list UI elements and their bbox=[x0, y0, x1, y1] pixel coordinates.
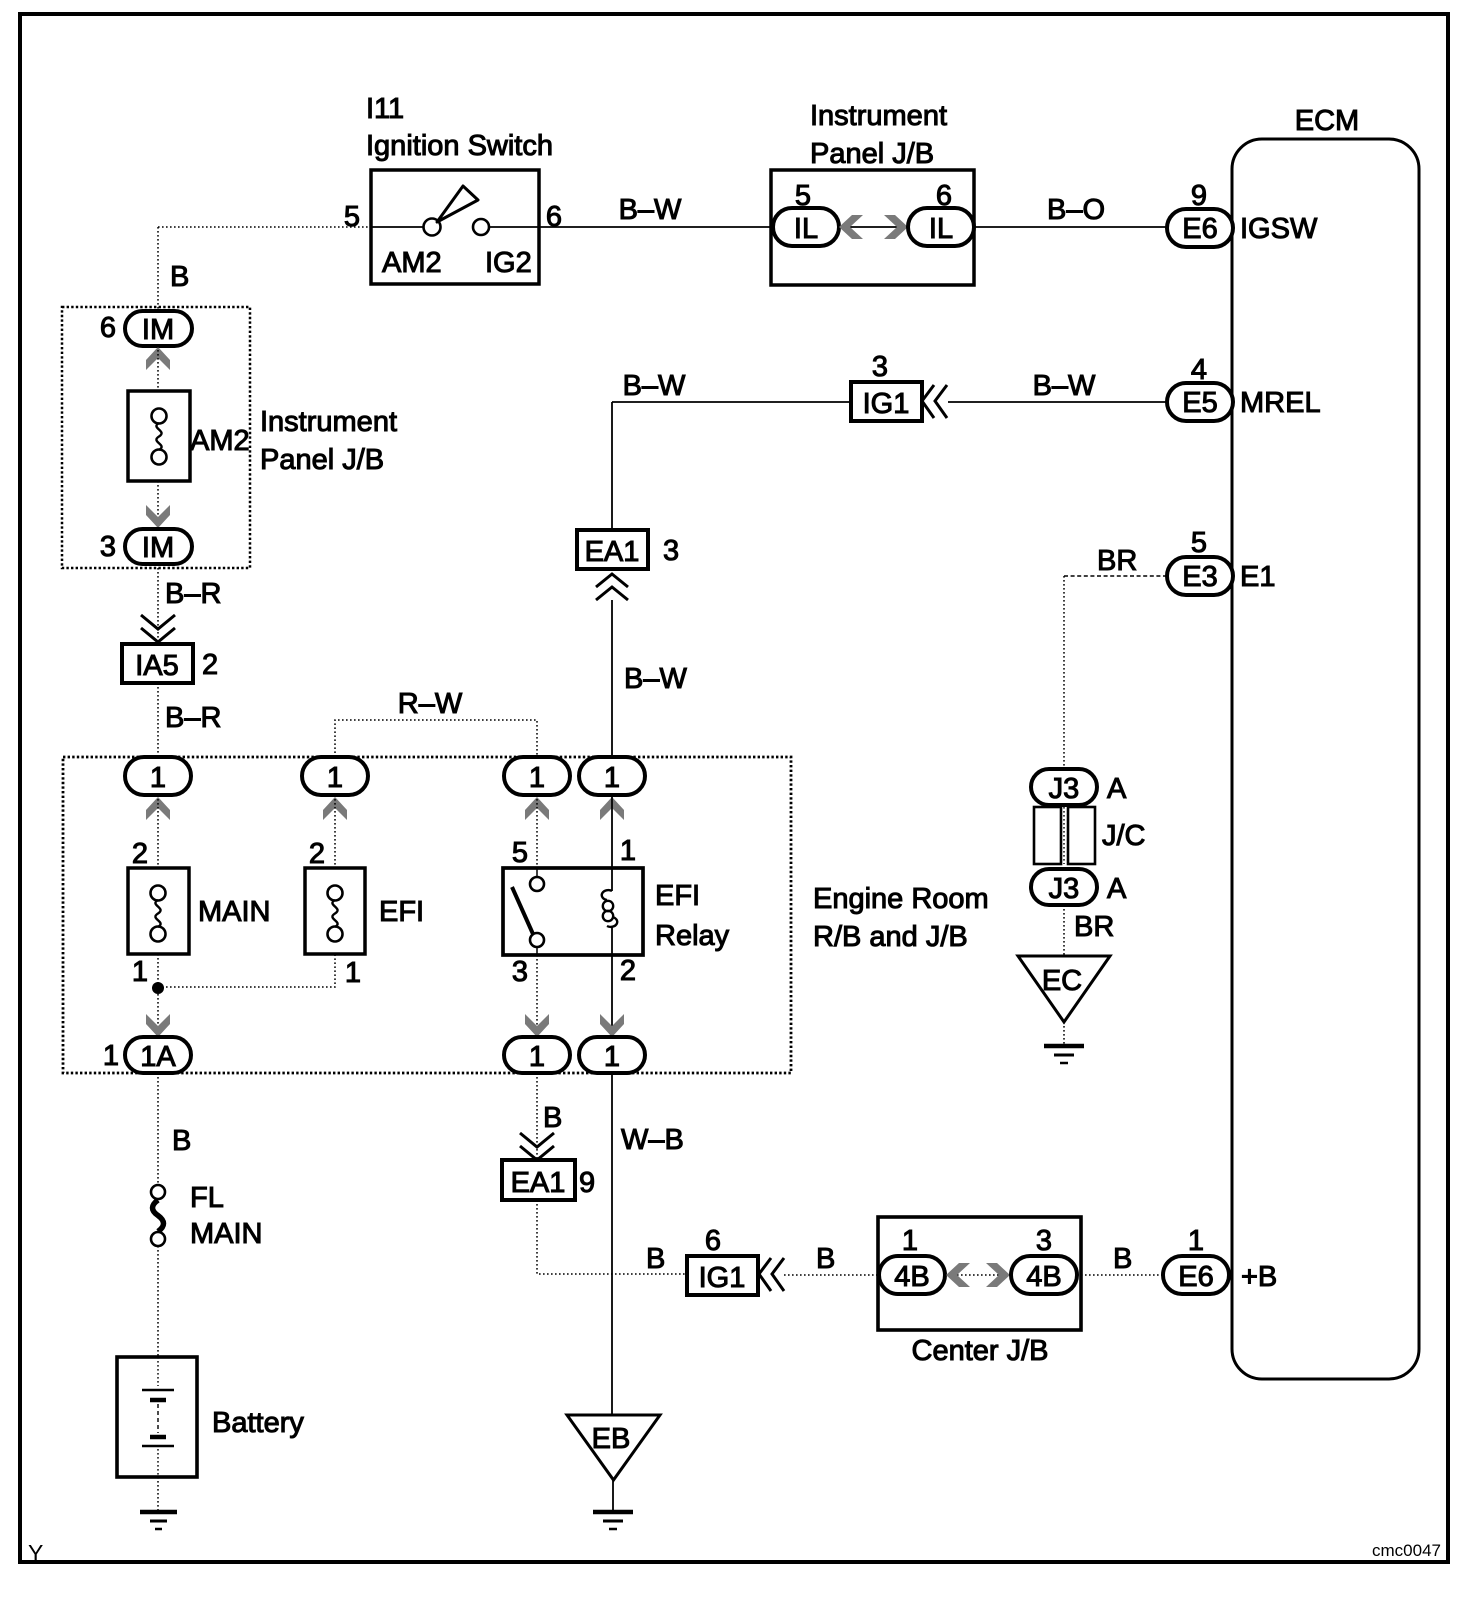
wire (EC to ground) bbox=[1063, 1022, 1065, 1046]
wire (battery to ground) bbox=[157, 1477, 159, 1511]
wire B (1A to fusible link) bbox=[157, 1073, 159, 1185]
svg-text:Panel J/B: Panel J/B bbox=[810, 138, 934, 170]
wire B (EA1 to IG1 bottom) bbox=[537, 1200, 687, 1274]
ground (EC) bbox=[1044, 1046, 1084, 1063]
svg-text:B–O: B–O bbox=[1047, 194, 1105, 226]
wire W-B (relay pin2 branch down to EB) bbox=[611, 1073, 613, 1415]
connector IM (pin3) bbox=[125, 529, 192, 564]
connector chevrons (above EA1 bottom, pointing down) bbox=[520, 1133, 554, 1160]
connector IG1 (top) bbox=[851, 382, 922, 421]
wire B-W vertical (EA1 down to engine room) bbox=[611, 600, 613, 757]
ground triangle EB bbox=[567, 1415, 660, 1480]
ground (EB) bbox=[593, 1512, 633, 1529]
connector 4B (pin1) bbox=[879, 1256, 945, 1294]
wire (fusible link to battery) bbox=[157, 1246, 159, 1357]
wire node B (switch pin5 to left drop) bbox=[158, 226, 371, 228]
connector IL (pin5) bbox=[773, 208, 839, 246]
connector IL (pin6) bbox=[908, 208, 974, 246]
svg-text:R/B and J/B: R/B and J/B bbox=[813, 921, 968, 953]
wire BR (J3 to EC) bbox=[1063, 905, 1065, 956]
svg-text:B: B bbox=[543, 1102, 562, 1134]
relay coil bbox=[602, 868, 617, 955]
arrow (down, above bottom connector relay pin2) bbox=[600, 1014, 624, 1037]
svg-text:Battery: Battery bbox=[212, 1407, 304, 1439]
svg-text:cmc0047: cmc0047 bbox=[1372, 1541, 1441, 1560]
svg-text:1: 1 bbox=[902, 1225, 918, 1257]
connector EA1 pin9 bbox=[502, 1160, 575, 1200]
svg-text:1: 1 bbox=[327, 762, 343, 794]
wire between 4B connectors bbox=[945, 1274, 1011, 1276]
svg-text:1: 1 bbox=[345, 957, 361, 989]
svg-text:EC: EC bbox=[1042, 965, 1082, 997]
svg-text:3: 3 bbox=[872, 351, 888, 383]
engine room label bbox=[813, 883, 989, 953]
connector J3 (A, bottom) bbox=[1031, 869, 1097, 905]
connector chevrons (IG1 bottom, pointing left) bbox=[759, 1258, 784, 1291]
svg-text:1: 1 bbox=[620, 835, 636, 867]
ignition switch I11 label bbox=[366, 93, 553, 162]
svg-text:IG1: IG1 bbox=[863, 388, 910, 420]
junction connector J/C box bbox=[1034, 807, 1095, 864]
wire BR vertical (down to J3) bbox=[1063, 576, 1065, 769]
connector E5 (MREL) bbox=[1167, 383, 1233, 421]
svg-text:IM: IM bbox=[142, 314, 174, 346]
arrow (up, below connector 1 relay pin1) bbox=[600, 797, 624, 820]
ignition switch I11 box bbox=[371, 170, 539, 284]
arrow (down, toward IM pin3) bbox=[146, 505, 170, 528]
wire (inside switch, IG2 side) bbox=[489, 226, 539, 228]
wire (EB to ground) bbox=[612, 1480, 614, 1511]
svg-text:EA1: EA1 bbox=[511, 1167, 566, 1199]
wire B-W vertical (IG1 branch down to EA1) bbox=[611, 402, 613, 530]
wire (MAIN fuse to junction and 1A) bbox=[157, 954, 159, 1039]
svg-text:2: 2 bbox=[132, 838, 148, 870]
instrument panel J/B (top) label bbox=[810, 100, 947, 170]
svg-text:B–W: B–W bbox=[619, 194, 682, 226]
svg-text:MAIN: MAIN bbox=[198, 896, 271, 928]
svg-text:FL: FL bbox=[190, 1182, 224, 1214]
ECM box bbox=[1232, 139, 1419, 1379]
svg-text:EFI: EFI bbox=[655, 880, 700, 912]
svg-text:E1: E1 bbox=[1240, 561, 1275, 593]
connector 1 (above relay pin1) bbox=[579, 757, 645, 795]
connector 1 (bottom, relay pin2) bbox=[579, 1037, 645, 1073]
svg-text:1: 1 bbox=[1188, 1225, 1204, 1257]
connector IA5 pin2 bbox=[122, 644, 193, 683]
wire (junction to EFI fuse bottom) bbox=[158, 954, 335, 987]
center J/B box bbox=[878, 1217, 1081, 1330]
ground (battery) bbox=[140, 1512, 177, 1529]
arrow (down, above connector 1A) bbox=[146, 1014, 170, 1037]
svg-text:E6: E6 bbox=[1178, 1261, 1213, 1293]
arrow (right, toward 4B pin3) bbox=[986, 1263, 1010, 1287]
ignition switch contact circle AM2 bbox=[424, 219, 441, 236]
svg-text:EB: EB bbox=[592, 1423, 631, 1455]
svg-text:1: 1 bbox=[132, 956, 148, 988]
svg-text:IG1: IG1 bbox=[699, 1262, 746, 1294]
instrument panel J/B (left) label bbox=[260, 406, 397, 476]
svg-text:Relay: Relay bbox=[655, 920, 730, 952]
svg-text:B: B bbox=[1113, 1243, 1132, 1275]
wire B (center J/B to ECM E6) bbox=[1077, 1274, 1163, 1276]
wire B-O (IL to ECM E6) bbox=[974, 226, 1167, 228]
wire (relay pin2 down) bbox=[611, 955, 613, 1037]
svg-text:Panel J/B: Panel J/B bbox=[260, 444, 384, 476]
engine room R/B and J/B box bbox=[63, 757, 791, 1073]
svg-text:6: 6 bbox=[100, 312, 116, 344]
svg-text:IA5: IA5 bbox=[135, 650, 179, 682]
svg-text:Y: Y bbox=[28, 1540, 43, 1566]
wire B-W (IG1 to ECM E5) bbox=[948, 401, 1167, 403]
relay contact bbox=[512, 868, 544, 955]
arrow (left, toward IL pin5) bbox=[839, 215, 863, 239]
relay EFI box bbox=[503, 868, 643, 955]
svg-text:4B: 4B bbox=[894, 1261, 929, 1293]
svg-text:B: B bbox=[170, 261, 189, 293]
svg-text:B: B bbox=[646, 1243, 665, 1275]
fuse AM2 bbox=[128, 391, 190, 481]
connector 1 (above MAIN) bbox=[125, 757, 191, 795]
svg-text:B–R: B–R bbox=[165, 702, 221, 734]
svg-text:IM: IM bbox=[142, 532, 174, 564]
arrow (left, toward 4B pin1) bbox=[946, 1263, 970, 1287]
svg-text:MREL: MREL bbox=[1240, 387, 1321, 419]
connector J3 (A, top) bbox=[1031, 769, 1097, 805]
arrow (up, below connector 1 MAIN) bbox=[146, 797, 170, 820]
svg-text:3: 3 bbox=[1036, 1225, 1052, 1257]
svg-text:1: 1 bbox=[103, 1040, 119, 1072]
svg-text:1: 1 bbox=[529, 762, 545, 794]
svg-text:Center J/B: Center J/B bbox=[912, 1335, 1049, 1367]
connector 4B (pin3) bbox=[1011, 1256, 1077, 1294]
svg-text:9: 9 bbox=[579, 1167, 595, 1199]
svg-text:Instrument: Instrument bbox=[810, 100, 947, 132]
svg-text:2: 2 bbox=[309, 838, 325, 870]
junction dot bbox=[152, 982, 164, 994]
connector EA1 pin3 bbox=[577, 530, 648, 569]
wire B-R (IA5 to engine room) bbox=[157, 683, 159, 757]
arrow (up, toward IM pin6) bbox=[146, 347, 170, 370]
connector 1A bbox=[125, 1037, 191, 1073]
svg-text:3: 3 bbox=[663, 535, 679, 567]
connector E3 (E1) bbox=[1167, 557, 1233, 595]
svg-text:5: 5 bbox=[512, 837, 528, 869]
wire (inside switch, AM2 side) bbox=[371, 226, 424, 228]
connector 1 (bottom, relay pin3) bbox=[504, 1037, 570, 1073]
connector E6 (IGSW) bbox=[1167, 209, 1233, 247]
svg-text:R–W: R–W bbox=[398, 688, 463, 720]
fusible link FL MAIN bbox=[151, 1185, 165, 1246]
fuse MAIN bbox=[128, 868, 189, 954]
svg-text:E6: E6 bbox=[1182, 213, 1217, 245]
svg-text:A: A bbox=[1107, 873, 1127, 905]
wire B-W (EA1 corner to IG1) bbox=[612, 401, 851, 403]
svg-text:E5: E5 bbox=[1182, 387, 1217, 419]
svg-text:2: 2 bbox=[620, 955, 636, 987]
connector IM (pin6) bbox=[125, 311, 192, 346]
wire (relay pin3 down) bbox=[536, 955, 538, 1037]
wire (connector to relay pin5) bbox=[536, 795, 538, 868]
svg-text:2: 2 bbox=[202, 649, 218, 681]
svg-text:5: 5 bbox=[344, 201, 360, 233]
connector IG1 (bottom) bbox=[687, 1256, 758, 1295]
svg-text:EA1: EA1 bbox=[585, 536, 640, 568]
instrument panel J/B (top) box bbox=[771, 170, 974, 285]
arrow (up, below connector 1 relay pin5) bbox=[525, 797, 549, 820]
svg-text:AM2: AM2 bbox=[382, 247, 442, 279]
fusible link value label FL MAIN bbox=[190, 1182, 263, 1250]
svg-text:AM2: AM2 bbox=[190, 425, 250, 457]
wire B (relay pin3 branch down to EA1) bbox=[536, 1073, 538, 1160]
svg-text:J3: J3 bbox=[1049, 773, 1080, 805]
connector chevrons (EA1 top, pointing up) bbox=[596, 574, 628, 600]
svg-text:1A: 1A bbox=[140, 1041, 176, 1073]
wire (connector to EFI fuse) bbox=[334, 795, 336, 868]
battery bbox=[117, 1357, 197, 1477]
svg-text:IGSW: IGSW bbox=[1240, 213, 1318, 245]
connector chevrons (IG1 top) bbox=[922, 385, 947, 418]
svg-text:E3: E3 bbox=[1182, 561, 1217, 593]
wire (connector to MAIN fuse) bbox=[157, 795, 159, 868]
svg-text:IL: IL bbox=[794, 213, 818, 245]
svg-text:W–B: W–B bbox=[621, 1124, 684, 1156]
svg-text:A: A bbox=[1107, 773, 1127, 805]
svg-text:1: 1 bbox=[604, 1041, 620, 1073]
arrow (down, above bottom connector relay pin3) bbox=[525, 1014, 549, 1037]
svg-text:B–W: B–W bbox=[1033, 370, 1096, 402]
wire between IL connectors bbox=[839, 226, 908, 228]
wire B-W (switch to instrument panel J/B) bbox=[539, 226, 773, 228]
svg-text:Instrument: Instrument bbox=[260, 406, 397, 438]
wire (connector to relay pin1) bbox=[611, 795, 613, 868]
svg-text:IL: IL bbox=[929, 213, 953, 245]
svg-text:I11: I11 bbox=[366, 93, 404, 125]
wire B-R (IM to IA5) bbox=[157, 564, 159, 644]
svg-text:6: 6 bbox=[546, 201, 562, 233]
svg-text:3: 3 bbox=[100, 531, 116, 563]
wire B vertical drop bbox=[157, 227, 159, 312]
ignition switch contact circle IG2 bbox=[473, 219, 489, 235]
connector 1 (above EFI) bbox=[302, 757, 368, 795]
svg-text:EFI: EFI bbox=[379, 896, 424, 928]
relay EFI label bbox=[655, 880, 730, 952]
svg-text:J3: J3 bbox=[1049, 873, 1080, 905]
svg-text:ECM: ECM bbox=[1295, 105, 1359, 137]
svg-text:J/C: J/C bbox=[1102, 820, 1146, 852]
svg-text:MAIN: MAIN bbox=[190, 1218, 263, 1250]
svg-text:BR: BR bbox=[1074, 911, 1114, 943]
svg-text:IG2: IG2 bbox=[485, 247, 532, 279]
fuse EFI bbox=[305, 868, 365, 954]
instrument panel J/B (left) box bbox=[62, 307, 250, 568]
svg-text:BR: BR bbox=[1097, 545, 1137, 577]
svg-text:Ignition Switch: Ignition Switch bbox=[366, 130, 553, 162]
ignition switch lever bbox=[437, 186, 478, 222]
svg-text:B–W: B–W bbox=[623, 370, 686, 402]
connector E6 (+B) bbox=[1163, 1256, 1229, 1294]
wire (AM2 fuse to IM pin3) bbox=[157, 481, 159, 530]
svg-text:B–R: B–R bbox=[165, 578, 221, 610]
svg-text:B–W: B–W bbox=[624, 663, 687, 695]
wire BR (E3 to J3 corner, dashed) bbox=[1064, 575, 1167, 577]
arrow (right, toward IL pin6) bbox=[884, 215, 908, 239]
svg-text:1: 1 bbox=[529, 1041, 545, 1073]
svg-text:1: 1 bbox=[150, 762, 166, 794]
svg-text:+B: +B bbox=[1241, 1261, 1277, 1293]
wire (IM to AM2 fuse) bbox=[157, 346, 159, 391]
svg-text:Engine Room: Engine Room bbox=[813, 883, 989, 915]
svg-text:B: B bbox=[172, 1125, 191, 1157]
arrow (up, below connector 1 EFI) bbox=[323, 797, 347, 820]
connector 1 (above relay pin5) bbox=[504, 757, 570, 795]
wire B (IG1 to center J/B) bbox=[784, 1274, 881, 1276]
svg-text:3: 3 bbox=[512, 956, 528, 988]
svg-text:5: 5 bbox=[1191, 527, 1207, 559]
connector chevrons (above IA5, pointing down) bbox=[141, 615, 175, 642]
svg-text:4B: 4B bbox=[1026, 1261, 1061, 1293]
svg-text:6: 6 bbox=[705, 1225, 721, 1257]
svg-text:1: 1 bbox=[604, 762, 620, 794]
ground triangle EC bbox=[1018, 956, 1110, 1022]
wire R-W jumper bbox=[335, 720, 537, 757]
svg-text:B: B bbox=[816, 1243, 835, 1275]
